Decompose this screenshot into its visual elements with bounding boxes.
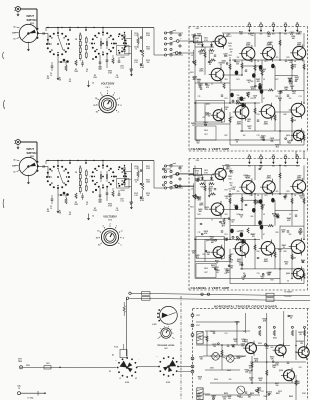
svg-text:B1: B1 — [248, 154, 250, 156]
svg-text:220: 220 — [207, 254, 210, 256]
svg-text:TO SWEEP: TO SWEEP — [284, 292, 293, 294]
svg-text:33: 33 — [289, 214, 291, 216]
svg-text:R31: R31 — [225, 234, 228, 236]
wire switch to attenuator — [37, 165, 52, 177]
svg-text:AMPL: AMPL — [264, 122, 269, 125]
transistor Q410 output — [286, 128, 304, 142]
svg-text:R27: R27 — [276, 79, 279, 81]
svg-text:SWITCH: SWITCH — [27, 152, 37, 155]
hatched pot R901 — [197, 331, 203, 344]
svg-text:470: 470 — [199, 86, 202, 89]
svg-text:150: 150 — [276, 385, 279, 387]
svg-text:150: 150 — [251, 35, 254, 37]
trigger board resistors — [206, 326, 306, 393]
diode D403 — [208, 42, 214, 64]
svg-text:4K7: 4K7 — [282, 230, 285, 233]
svg-text:33: 33 — [245, 177, 247, 179]
transistor Q904 — [279, 368, 295, 383]
svg-text:C99: C99 — [263, 396, 266, 398]
switch S1 input AC-GND-DC — [12, 24, 39, 51]
svg-text:D902: D902 — [227, 370, 231, 372]
svg-text:SWITCH: SWITCH — [27, 19, 37, 22]
svg-text:2K2: 2K2 — [258, 390, 261, 392]
rotary switch wafer S1A volts-div — [46, 32, 70, 56]
svg-text:220: 220 — [230, 51, 233, 53]
svg-text:C211: C211 — [134, 166, 138, 168]
svg-text:5: 5 — [100, 93, 101, 95]
svg-text:680: 680 — [251, 81, 254, 83]
svg-text:1: 1 — [114, 93, 115, 95]
svg-text:100: 100 — [300, 198, 303, 200]
svg-text:B1: B1 — [248, 22, 250, 24]
svg-text:100: 100 — [248, 128, 251, 130]
attenuator trim labels — [134, 166, 151, 198]
transistor Q403 — [196, 101, 225, 141]
board resistors — [194, 173, 305, 279]
svg-text:5-25: 5-25 — [134, 195, 137, 197]
board wiring mesh — [194, 165, 305, 284]
svg-text:R1: R1 — [59, 211, 61, 213]
svg-text:33: 33 — [249, 373, 251, 375]
svg-text:100: 100 — [288, 142, 291, 144]
svg-text:.05: .05 — [216, 263, 218, 265]
svg-text:220: 220 — [289, 234, 292, 236]
svg-text:E2: E2 — [260, 154, 262, 156]
svg-text:C209: C209 — [129, 69, 133, 71]
switch contacts balance — [154, 163, 183, 189]
svg-text:C205: C205 — [98, 200, 102, 202]
diode D401 — [192, 42, 205, 64]
svg-text:5-25: 5-25 — [134, 62, 137, 64]
transistor Q458 — [290, 175, 306, 195]
svg-text:LF: LF — [119, 378, 121, 380]
calibrator terminal — [17, 385, 46, 400]
attenuator trim labels — [134, 33, 151, 65]
svg-text:4K7: 4K7 — [248, 396, 251, 399]
svg-text:R25: R25 — [287, 57, 290, 59]
svg-text:33: 33 — [208, 116, 210, 118]
svg-text:2K2: 2K2 — [239, 264, 242, 266]
wire input to switch — [20, 142, 37, 161]
svg-text:C101: C101 — [302, 393, 306, 395]
svg-text:P: P — [181, 171, 182, 173]
resistor ladder R attenuator — [74, 166, 91, 206]
svg-text:R2: R2 — [47, 76, 49, 78]
svg-text:R923: R923 — [224, 393, 228, 395]
board left input pins — [175, 39, 194, 55]
svg-text:C93: C93 — [261, 391, 264, 393]
svg-text:150: 150 — [196, 142, 199, 144]
svg-text:82: 82 — [130, 71, 132, 73]
svg-text:E2: E2 — [260, 22, 262, 24]
transistor Q455 — [233, 240, 249, 263]
ground calibrator — [87, 214, 94, 221]
wire attenuator top rail — [46, 27, 154, 33]
diode D901 — [210, 353, 219, 370]
svg-text:R1: R1 — [59, 78, 61, 80]
rail junction details — [61, 27, 94, 31]
transistor Q457 — [259, 240, 275, 263]
trigger board annotations — [196, 314, 304, 400]
svg-text:470: 470 — [285, 262, 288, 265]
svg-text:2 INT: 2 INT — [196, 325, 200, 327]
transistor Q903 — [273, 338, 287, 358]
attenuator value labels — [47, 208, 119, 216]
svg-text:100: 100 — [213, 346, 216, 348]
hatched pot R911 — [197, 388, 203, 400]
svg-text:.2: .2 — [122, 238, 124, 240]
wire ext trig — [23, 363, 117, 369]
svg-text:220: 220 — [245, 371, 248, 373]
board resistors — [194, 40, 305, 141]
board outline horizontal trigger — [193, 309, 311, 400]
wire switch to attenuator — [37, 32, 52, 44]
svg-text:5-25: 5-25 — [115, 210, 118, 212]
svg-text:D905: D905 — [237, 396, 241, 398]
svg-text:.1: .1 — [118, 112, 120, 114]
svg-text:470: 470 — [193, 78, 196, 81]
svg-text:.05: .05 — [198, 36, 200, 38]
svg-text:20: 20 — [93, 105, 95, 107]
svg-text:150: 150 — [300, 343, 303, 345]
svg-text:R35: R35 — [276, 232, 279, 234]
switch contacts balance — [154, 30, 183, 56]
svg-text:AMPL: AMPL — [264, 260, 269, 263]
svg-text:.05: .05 — [209, 64, 211, 66]
wire interboard links — [296, 151, 304, 159]
svg-text:C8: C8 — [116, 208, 118, 210]
svg-text:AMPL: AMPL — [267, 176, 272, 179]
svg-text:.5: .5 — [121, 231, 123, 233]
svg-text:AMPL: AMPL — [246, 43, 251, 46]
board left pins — [191, 314, 200, 373]
svg-text:150: 150 — [262, 138, 265, 140]
svg-text:001: 001 — [69, 81, 72, 83]
svg-text:C7: C7 — [211, 219, 213, 221]
svg-text:3-12: 3-12 — [134, 168, 137, 170]
svg-text:50: 50 — [96, 112, 98, 114]
components below second wafer — [92, 188, 133, 207]
svg-text:68: 68 — [220, 64, 222, 66]
svg-text:33: 33 — [248, 82, 250, 84]
svg-text:.05: .05 — [261, 207, 263, 209]
svg-text:-12V: -12V — [190, 55, 193, 57]
svg-text:VOLTS/DIV: VOLTS/DIV — [101, 82, 115, 86]
svg-text:82: 82 — [271, 254, 273, 256]
transformer T501 — [114, 344, 127, 358]
svg-text:R25: R25 — [287, 191, 290, 193]
svg-text:.05: .05 — [236, 142, 238, 144]
svg-text:Q904: Q904 — [279, 369, 283, 372]
svg-text:R903: R903 — [210, 331, 214, 333]
connector ext trig input — [18, 359, 30, 369]
svg-text:56: 56 — [287, 281, 289, 283]
svg-text:10: 10 — [95, 98, 97, 100]
svg-text:.1: .1 — [120, 244, 122, 246]
svg-text:2K2: 2K2 — [229, 261, 232, 263]
svg-text:.05: .05 — [240, 217, 242, 219]
input network box — [189, 27, 214, 43]
svg-text:5-25: 5-25 — [98, 68, 101, 70]
components below first wafer — [50, 55, 69, 81]
svg-text:.05: .05 — [226, 166, 228, 168]
svg-text:470: 470 — [240, 231, 243, 234]
svg-text:82: 82 — [271, 117, 273, 119]
svg-text:33: 33 — [283, 247, 285, 249]
svg-text:470: 470 — [241, 344, 244, 347]
label HORIZONTAL TRIGGER CIRCUIT BOARD — [214, 305, 277, 309]
board left input pins — [175, 171, 194, 188]
svg-text:R213: R213 — [146, 180, 150, 182]
svg-text:10: 10 — [50, 208, 52, 210]
svg-text:4K7: 4K7 — [222, 225, 225, 228]
svg-text:10: 10 — [50, 75, 52, 77]
svg-text:C215: C215 — [134, 193, 138, 195]
bias label stack — [190, 175, 233, 209]
svg-text:C207: C207 — [120, 199, 124, 201]
trim cap box — [117, 46, 130, 60]
svg-text:D901: D901 — [210, 368, 214, 370]
transistor Q451 input amp — [213, 166, 232, 182]
svg-text:Q460: Q460 — [286, 272, 290, 275]
wire trigger pickoff lower — [126, 296, 310, 302]
svg-text:R209: R209 — [108, 204, 112, 206]
trimmer capacitor ladder — [123, 163, 133, 209]
svg-text:C205: C205 — [98, 67, 102, 69]
board value annotations — [191, 31, 302, 149]
label INPUT SWITCH channel 2 — [27, 148, 37, 158]
transistor Q905 — [296, 345, 310, 360]
board capacitors — [200, 55, 297, 121]
board outline channel 2 vert amp — [189, 159, 308, 291]
svg-text:150: 150 — [278, 93, 281, 95]
svg-text:470: 470 — [196, 256, 199, 259]
transistor Q902 — [243, 340, 257, 356]
svg-text:68: 68 — [300, 334, 302, 336]
svg-text:.2: .2 — [120, 105, 122, 107]
svg-text:C2: C2 — [50, 206, 52, 208]
svg-text:100: 100 — [267, 275, 270, 277]
svg-text:68: 68 — [199, 54, 201, 56]
svg-text:C13: C13 — [299, 96, 302, 98]
svg-text:4K7: 4K7 — [211, 241, 214, 244]
svg-text:68: 68 — [225, 109, 227, 111]
svg-text:220: 220 — [237, 191, 240, 193]
svg-text:1 EXT: 1 EXT — [196, 315, 200, 317]
svg-text:220: 220 — [237, 57, 240, 59]
svg-text:TRIGGER LEVEL: TRIGGER LEVEL — [157, 345, 175, 347]
svg-text:R2: R2 — [47, 209, 49, 211]
svg-text:.5: .5 — [119, 98, 121, 100]
svg-text:150: 150 — [236, 64, 239, 66]
svg-text:100: 100 — [265, 348, 268, 350]
svg-text:+: + — [116, 360, 117, 362]
svg-text:C3: C3 — [209, 49, 211, 51]
label CHANNEL 1 VERT AMP — [191, 147, 230, 151]
rotary switch wafer S2C — [115, 166, 127, 187]
transistor Q460 output — [286, 266, 304, 280]
svg-text:.05: .05 — [225, 198, 227, 200]
svg-text:R213: R213 — [146, 47, 150, 49]
svg-text:1: 1 — [116, 225, 117, 227]
svg-text:.05: .05 — [216, 272, 218, 274]
svg-text:L-505: L-505 — [152, 324, 156, 326]
svg-text:5: 5 — [103, 225, 104, 227]
svg-text:.05: .05 — [290, 317, 292, 319]
svg-text:220: 220 — [289, 98, 292, 100]
label CHANNEL 2 VERT AMP — [191, 286, 230, 290]
knob TRIGGER LEVEL — [157, 326, 175, 350]
svg-text:150: 150 — [205, 209, 208, 211]
svg-text:5-25: 5-25 — [98, 201, 101, 203]
svg-text:R15: R15 — [225, 190, 228, 192]
svg-text:68: 68 — [232, 222, 234, 224]
left margin mark b — [3, 100, 6, 109]
svg-text:150: 150 — [192, 36, 195, 38]
transistor Q406 — [260, 42, 275, 62]
svg-text:001: 001 — [69, 214, 72, 216]
electrolytic capacitors — [230, 198, 275, 244]
svg-text:150: 150 — [200, 358, 203, 360]
svg-text:R19: R19 — [250, 61, 253, 63]
board component labels — [198, 176, 302, 283]
svg-text:R929: R929 — [289, 396, 293, 398]
resistor network input amp — [137, 161, 145, 202]
svg-text:CHANNEL 2 VERT AMP: CHANNEL 2 VERT AMP — [191, 286, 230, 290]
svg-text:150: 150 — [269, 44, 272, 46]
svg-text:150: 150 — [250, 380, 253, 382]
svg-text:33: 33 — [192, 125, 194, 127]
svg-text:2: 2 — [109, 224, 110, 226]
svg-text:R21: R21 — [265, 61, 268, 63]
transistor Q404 — [239, 42, 255, 63]
label VOLTS/DIV channel 2 — [103, 215, 117, 222]
svg-text:B5: B5 — [296, 22, 298, 24]
rotary switch S503 trigger slope — [137, 356, 191, 384]
svg-text:INPUT: INPUT — [27, 148, 35, 151]
svg-text:82: 82 — [130, 204, 132, 206]
svg-text:R5: R5 — [94, 208, 96, 210]
svg-text:2K2: 2K2 — [259, 380, 262, 382]
transistor Q459 — [289, 238, 305, 259]
svg-text:05: 05 — [229, 57, 231, 59]
svg-text:R927: R927 — [276, 393, 280, 395]
transistor Q405 — [233, 103, 249, 125]
diode D401 — [192, 175, 205, 198]
svg-text:B3: B3 — [272, 154, 274, 156]
svg-text:S-502: S-502 — [125, 382, 129, 384]
label INPUT SWITCH channel 1 — [27, 15, 37, 25]
svg-text:33: 33 — [271, 140, 273, 142]
trigger board extra wiring — [203, 332, 297, 394]
rotary switch S501 trigger source — [152, 306, 177, 326]
svg-text:3-12: 3-12 — [134, 35, 137, 37]
svg-text:TO HORIZ: TO HORIZ — [284, 296, 292, 298]
svg-text:C209: C209 — [129, 202, 133, 204]
wire attenuator top rail — [46, 160, 154, 166]
components below first wafer — [50, 188, 69, 214]
svg-text:3-12: 3-12 — [120, 67, 123, 69]
svg-text:3-12: 3-12 — [120, 200, 123, 202]
svg-text:R211: R211 — [146, 33, 150, 35]
svg-text:1K5: 1K5 — [225, 214, 228, 216]
svg-text:B5: B5 — [296, 154, 298, 156]
svg-text:S-503: S-503 — [166, 382, 170, 384]
svg-text:10: 10 — [97, 231, 99, 233]
svg-text:R550: R550 — [26, 365, 30, 367]
svg-text:C2: C2 — [50, 73, 52, 75]
rail junction details — [61, 160, 94, 164]
svg-text:1500: 1500 — [228, 45, 231, 47]
board wiring mesh — [194, 32, 305, 145]
diode D403 — [208, 175, 214, 198]
svg-text:.05: .05 — [259, 86, 261, 88]
svg-text:4K7: 4K7 — [224, 54, 227, 57]
wire input to switch — [20, 9, 37, 28]
svg-text:150: 150 — [234, 207, 237, 209]
resistor ladder R attenuator — [74, 33, 91, 73]
board outline channel 1 vert amp — [189, 27, 308, 152]
svg-text:R209: R209 — [108, 71, 112, 73]
svg-text:+: + — [157, 356, 158, 358]
svg-text:100: 100 — [243, 135, 246, 137]
trimmer capacitor ladder — [123, 30, 133, 76]
svg-text:4K7: 4K7 — [210, 238, 213, 241]
svg-text:470: 470 — [251, 88, 254, 91]
svg-text:R19: R19 — [250, 195, 253, 197]
board capacitors — [200, 189, 297, 259]
svg-text:1500: 1500 — [228, 179, 231, 181]
transistor Q452 — [199, 201, 224, 218]
svg-text:2K2: 2K2 — [276, 147, 279, 149]
svg-text:R37: R37 — [203, 117, 206, 119]
transistor Q453 — [196, 237, 225, 278]
transistor Q408 — [290, 42, 306, 62]
svg-text:P: P — [181, 39, 182, 41]
svg-text:R909: R909 — [214, 379, 218, 381]
board top pins — [248, 21, 299, 35]
attenuator value labels — [47, 75, 119, 83]
svg-text:220: 220 — [237, 358, 240, 360]
svg-text:R215: R215 — [146, 60, 150, 62]
trigger board labels — [210, 331, 301, 393]
svg-text:CH 2: CH 2 — [108, 220, 112, 222]
trigger board bottom labels — [198, 393, 306, 398]
svg-text:C6: C6 — [69, 79, 71, 81]
svg-text:C215: C215 — [134, 60, 138, 62]
wire trigger pickoff upper — [129, 292, 310, 297]
svg-text:R39: R39 — [257, 251, 260, 253]
svg-text:R3: R3 — [75, 202, 77, 204]
board value annotations — [192, 163, 305, 281]
components below second wafer — [92, 55, 133, 74]
svg-text:TRIG: TRIG — [18, 361, 23, 363]
svg-text:2K2: 2K2 — [298, 34, 301, 36]
board top pins — [248, 153, 299, 167]
svg-text:5-25: 5-25 — [115, 77, 118, 79]
svg-text:R3: R3 — [75, 69, 77, 71]
system boundary dash line — [180, 296, 182, 400]
svg-text:C6: C6 — [69, 212, 71, 214]
svg-text:220: 220 — [267, 36, 270, 38]
transistor Q456 — [260, 175, 275, 196]
knob VOLTS/DIV channel 1 — [93, 91, 121, 114]
svg-text:C7: C7 — [211, 84, 213, 86]
svg-text:R31: R31 — [225, 98, 228, 100]
svg-text:68: 68 — [223, 63, 225, 65]
svg-text:R37: R37 — [203, 254, 206, 256]
diode D902 — [227, 355, 235, 372]
